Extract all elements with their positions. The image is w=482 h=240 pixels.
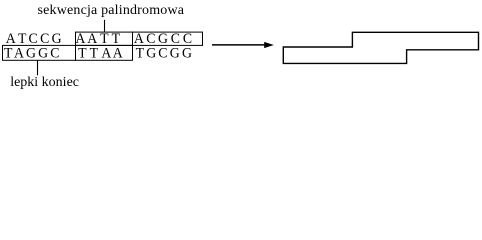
svg-text:lepki koniec: lepki koniec [10,75,79,90]
svg-text:TTAA: TTAA [78,45,123,62]
box around TTAA [76,45,133,60]
arrow shaft [212,44,267,46]
arrow head [264,42,274,48]
leader tick from TAGGC box to label lepki koniec [37,60,39,75]
svg-text:TAGGC: TAGGC [4,45,60,62]
leader tick from label to palindromic box [104,20,106,32]
svg-text:sekwencja palindromowa: sekwencja palindromowa [38,3,185,18]
box around AATT [76,32,133,45]
box around TAGGC [3,45,76,60]
box around ACGCC [133,32,203,45]
stepped duplex with sticky ends [283,32,478,63]
